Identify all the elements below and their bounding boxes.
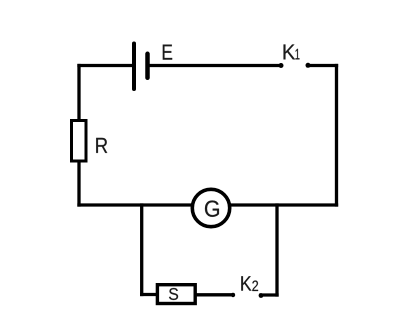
battery E long plate xyxy=(132,44,136,90)
resistor R xyxy=(72,121,87,162)
switch K1 left contact xyxy=(279,63,284,68)
wire top-left (corner to battery) xyxy=(79,64,134,67)
wire middle horizontal xyxy=(79,203,337,206)
box S xyxy=(157,285,195,304)
switch K2 left contact xyxy=(231,293,235,297)
wire bottom-left vertical xyxy=(140,205,143,295)
wire top-mid (battery to K1) xyxy=(148,64,282,67)
wire bottom-left horizontal xyxy=(142,293,160,296)
label K2 xyxy=(241,276,251,290)
wire S to K2 xyxy=(194,293,233,296)
label R xyxy=(96,138,107,153)
wire K2 to corner xyxy=(261,293,277,296)
battery E short plate xyxy=(145,54,150,78)
switch K1 right contact xyxy=(306,63,311,68)
label G xyxy=(205,201,219,217)
wire right vertical xyxy=(335,66,338,206)
wire left vertical xyxy=(77,66,80,206)
label E xyxy=(163,45,172,60)
wire bottom-right vertical xyxy=(275,205,278,295)
label S xyxy=(169,288,178,300)
wire top-right (K1 to corner) xyxy=(308,64,337,67)
switch K2 right contact xyxy=(259,293,264,298)
label K1 xyxy=(284,44,296,59)
galvanometer G xyxy=(192,189,229,226)
